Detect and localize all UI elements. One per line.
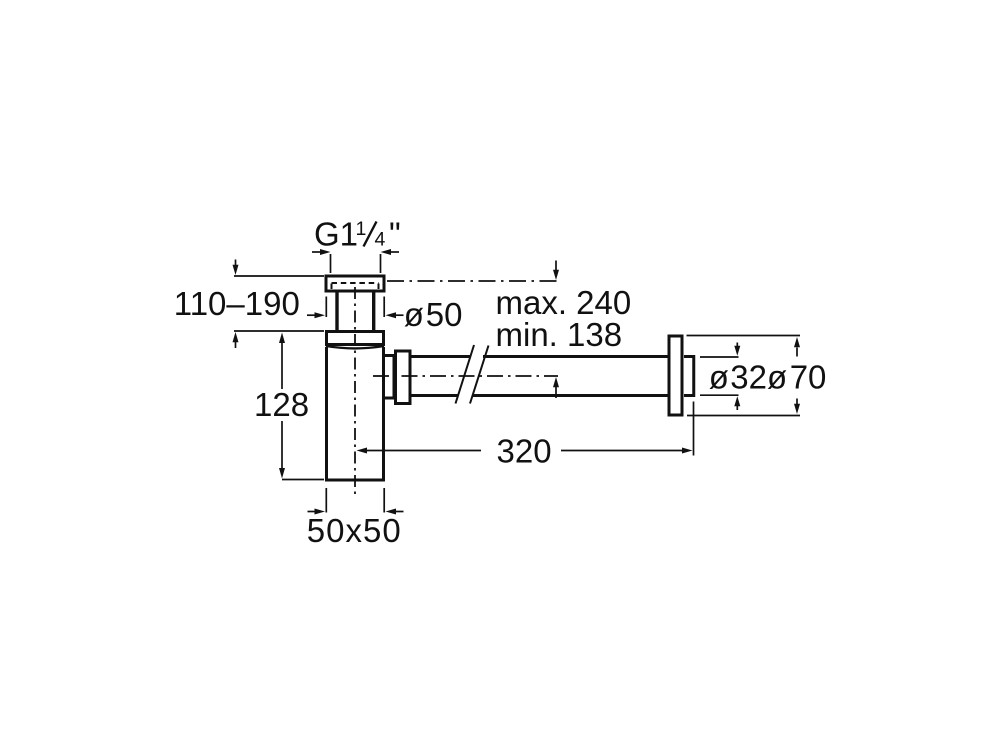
arrowhead 128 top: [279, 333, 285, 344]
pipe break slash 1: [456, 345, 475, 404]
extension line body nut top to left: [234, 330, 324, 332]
thread dashed lines inside flange: [332, 283, 379, 291]
diameter 32 extension lines: [700, 357, 739, 395]
horizontal centerline of pipe: [373, 375, 558, 377]
G1 1/4" dimension arrows: [312, 252, 399, 273]
svg-text:ø: ø: [709, 359, 729, 396]
neck (inlet tube between flange and body nut): [337, 293, 374, 331]
diameter 70 arrows: [796, 348, 798, 357]
tailpiece flange (top square flange): [326, 276, 384, 291]
top reference centerline (basin outlet level): [387, 280, 559, 282]
arrowhead 320 right: [682, 448, 693, 454]
diameter 50 extension lines: [307, 297, 404, 318]
compression ring: [396, 351, 411, 404]
outlet stub nut: [385, 356, 395, 399]
128 dimension line: [281, 343, 283, 468]
label diameter 32: [709, 359, 767, 396]
body top nut flange: [327, 332, 384, 345]
label diameter 50: [404, 296, 463, 333]
arrowhead diameter 50 right: [386, 312, 397, 318]
110-190 dimension arrows: [235, 260, 237, 349]
trap body cup 50x50: [327, 347, 384, 480]
320 dimension line: [366, 450, 682, 452]
arrowhead G dimension right: [381, 249, 392, 255]
rim arc under nut: [326, 346, 384, 348]
arrowhead 110-190 top: [233, 265, 239, 275]
svg-text:32: 32: [730, 359, 767, 396]
svg-text:min. 138: min. 138: [496, 316, 623, 353]
outlet pipe top edge (with break gap): [411, 355, 668, 358]
pipe break slash 2: [470, 346, 489, 404]
arrowhead 320 left: [357, 448, 368, 454]
label G1 1/4 inch: [314, 216, 401, 253]
50x50 extension lines: [308, 488, 404, 513]
svg-text:320: 320: [497, 433, 552, 470]
max/min dimension bottom arrow: [555, 387, 557, 398]
arrowhead 110-190 bottom: [233, 332, 239, 342]
extension line body bottom to left: [282, 479, 324, 481]
arrowhead 50x50 right: [386, 509, 397, 515]
label diameter 70: [767, 359, 826, 396]
svg-text:G1: G1: [314, 216, 358, 253]
svg-text:1: 1: [356, 218, 367, 240]
svg-text:50: 50: [426, 296, 463, 333]
svg-text:4: 4: [375, 229, 386, 251]
max/min dimension top arrow: [555, 261, 557, 271]
svg-text:70: 70: [790, 359, 827, 396]
diameter 70 extension lines: [687, 336, 801, 416]
outlet pipe bottom edge (with break gap): [411, 394, 668, 397]
svg-text:ø: ø: [767, 359, 787, 396]
arrowhead 50x50 left: [315, 509, 326, 515]
arrowhead diameter 50 left: [315, 312, 326, 318]
vertical centerline of trap: [354, 287, 356, 494]
svg-text:128: 128: [254, 386, 309, 423]
arrowhead 128 bottom: [279, 468, 285, 479]
svg-text:ø: ø: [404, 296, 424, 333]
svg-text:": ": [389, 216, 401, 253]
320 extension line at wall stub: [693, 402, 695, 456]
svg-text:50x50: 50x50: [307, 512, 402, 549]
diameter 32 arrows: [736, 343, 738, 347]
svg-text:110–190: 110–190: [174, 285, 300, 322]
wall flange (rosette): [669, 336, 682, 415]
extension line flange top to left: [234, 275, 324, 277]
arrowhead G dimension left: [320, 249, 331, 255]
wall-side stub: [684, 357, 694, 396]
